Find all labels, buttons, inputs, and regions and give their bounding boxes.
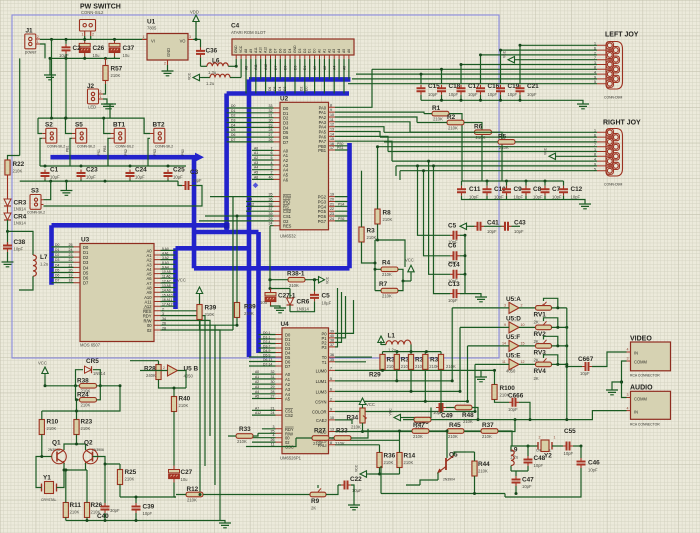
svg-text:D1-1: D1-1	[263, 335, 270, 339]
svg-text:D2-4: D2-4	[263, 340, 270, 344]
svg-text:PS6: PS6	[338, 217, 345, 221]
svg-text:2: 2	[271, 171, 273, 175]
svg-text:C12: C12	[571, 186, 583, 193]
power arrow VCC right	[319, 277, 325, 283]
svg-text:VCC: VCC	[389, 408, 393, 416]
svg-text:C40: C40	[97, 513, 109, 520]
svg-text:BT2: BT2	[153, 122, 166, 129]
bus horizontal y225	[52, 223, 227, 228]
svg-text:D6: D6	[278, 49, 282, 53]
svg-text:210K: 210K	[463, 419, 473, 424]
bus horizontal y232	[194, 230, 259, 235]
bus horizontal y79.4 rom	[249, 77, 350, 82]
svg-text:C46: C46	[588, 460, 600, 467]
svg-text:D0: D0	[313, 49, 317, 53]
svg-text:A3: A3	[254, 161, 258, 165]
svg-text:210K: 210K	[70, 510, 80, 515]
U2 left address pins	[274, 150, 281, 179]
svg-text:R44: R44	[478, 461, 490, 468]
svg-text:D3: D3	[231, 119, 235, 123]
svg-text:210K: 210K	[382, 272, 392, 277]
wire audio in	[515, 411, 627, 420]
svg-text:CR6: CR6	[297, 299, 310, 306]
wire trunk	[566, 308, 568, 420]
svg-text:U5:A: U5:A	[506, 296, 521, 303]
svg-text:10pF: 10pF	[522, 484, 532, 489]
svg-text:R4: R4	[382, 260, 391, 267]
U4 right T0 T1	[329, 357, 336, 362]
capacitor C17	[460, 65, 462, 84]
svg-text:1N914: 1N914	[14, 207, 27, 212]
svg-text:PS2: PS2	[124, 149, 128, 156]
svg-text:10µF: 10µF	[322, 301, 332, 306]
svg-text:U2: U2	[280, 96, 289, 103]
capacitor C18	[441, 69, 443, 84]
svg-text:A2: A2	[254, 156, 258, 160]
svg-text:C9: C9	[514, 186, 523, 193]
svg-text:38: 38	[269, 202, 273, 206]
svg-text:R39: R39	[205, 305, 217, 312]
bus main horizontal y157	[51, 155, 197, 160]
wire between R10 R23	[42, 386, 120, 411]
svg-text:10u: 10u	[260, 300, 268, 305]
svg-text:A11: A11	[254, 64, 258, 70]
svg-text:210K: 210K	[237, 439, 247, 444]
svg-text:210K: 210K	[47, 426, 57, 431]
rom pin net labels	[244, 64, 346, 70]
wire lower rail y58.4	[50, 57, 120, 59]
svg-text:D7: D7	[283, 140, 289, 145]
svg-text:33: 33	[269, 104, 273, 108]
svg-text:R48: R48	[462, 412, 474, 419]
wire to L7	[8, 231, 34, 255]
rom pin wires to power	[235, 59, 237, 66]
wire bottom right rail	[381, 494, 505, 498]
svg-text:C39: C39	[143, 504, 155, 511]
svg-text:C6: C6	[448, 243, 457, 250]
svg-text:36: 36	[330, 353, 334, 357]
svg-text:3: 3	[271, 166, 273, 170]
svg-text:10µF: 10µF	[50, 175, 60, 180]
svg-text:U4: U4	[281, 321, 290, 328]
capacitor C3	[178, 181, 182, 185]
svg-text:10pF: 10pF	[143, 511, 153, 516]
resistor R30	[438, 354, 443, 369]
svg-text:210K: 210K	[384, 460, 394, 465]
svg-text:CR4: CR4	[14, 214, 27, 221]
svg-text:D4: D4	[278, 87, 282, 91]
svg-text:4: 4	[627, 348, 629, 352]
svg-text:34: 34	[269, 222, 273, 226]
svg-text:11: 11	[271, 443, 275, 447]
svg-text:32: 32	[271, 370, 275, 374]
svg-text:210K: 210K	[81, 426, 91, 431]
svg-text:RV3: RV3	[534, 350, 547, 357]
svg-text:R23: R23	[81, 419, 93, 426]
svg-text:3: 3	[273, 425, 275, 429]
svg-text:COLOR: COLOR	[312, 410, 327, 415]
svg-text:8: 8	[330, 441, 332, 445]
capacitor C2	[62, 44, 71, 54]
svg-text:A5: A5	[285, 397, 291, 402]
svg-text:23: 23	[330, 212, 334, 216]
svg-text:C14: C14	[448, 261, 460, 268]
svg-text:R9: R9	[311, 498, 320, 505]
svg-text:210K: 210K	[205, 312, 215, 317]
svg-text:AUDIO: AUDIO	[630, 385, 653, 392]
svg-text:10pF: 10pF	[468, 92, 478, 97]
svg-text:GND: GND	[166, 48, 171, 57]
svg-text:D6: D6	[268, 87, 272, 91]
svg-text:10pF: 10pF	[448, 298, 458, 303]
svg-text:3: 3	[627, 393, 629, 397]
svg-text:28: 28	[271, 390, 275, 394]
svg-text:210K: 210K	[289, 283, 299, 288]
capacitor C37	[109, 39, 120, 56]
svg-text:LED: LED	[88, 105, 96, 110]
svg-text:35: 35	[269, 193, 273, 197]
svg-text:210K: 210K	[478, 469, 488, 474]
svg-text:LUM3: LUM3	[316, 389, 328, 394]
U2 PB0 PB1 to bus	[335, 146, 348, 150]
svg-text:210K: 210K	[335, 441, 345, 446]
svg-text:15: 15	[521, 342, 525, 346]
capacitor C8	[522, 186, 531, 196]
svg-text:R37: R37	[482, 422, 494, 429]
svg-text:S5: S5	[75, 122, 83, 129]
svg-text:210K: 210K	[446, 364, 456, 369]
U3 control pins	[154, 311, 161, 330]
svg-text:R100: R100	[500, 385, 516, 392]
svg-text:9: 9	[504, 323, 506, 327]
svg-text:210K: 210K	[244, 311, 254, 316]
rom slot pin stubs	[236, 55, 349, 59]
svg-text:R8: R8	[383, 210, 392, 217]
svg-text:10µF: 10µF	[59, 53, 69, 58]
svg-text:1: 1	[100, 95, 102, 99]
svg-text:2: 2	[521, 304, 523, 308]
svg-text:C1: C1	[50, 167, 59, 174]
svg-text:210K: 210K	[499, 145, 509, 150]
svg-text:R45: R45	[449, 422, 461, 429]
diode CR4	[4, 213, 11, 220]
capacitor C48	[524, 456, 533, 466]
svg-text:R47: R47	[413, 422, 425, 429]
resistor R100	[492, 385, 497, 400]
svg-text:210K: 210K	[313, 441, 323, 446]
wire J2 pin1 to ground	[103, 99, 107, 104]
capacitor C666	[509, 398, 519, 407]
svg-text:R7: R7	[379, 281, 388, 288]
capacitor C10	[483, 186, 492, 196]
svg-text:RCA CONNECTOR: RCA CONNECTOR	[630, 423, 660, 427]
svg-text:9 A4: 9 A4	[162, 266, 169, 270]
svg-text:BT1: BT1	[113, 122, 126, 129]
capacitor C16	[480, 55, 482, 84]
resistor R8	[375, 209, 380, 224]
svg-text:D7: D7	[55, 279, 59, 283]
svg-text:10pF: 10pF	[487, 229, 497, 234]
wire S5 stub	[66, 118, 73, 133]
svg-text:D7-14: D7-14	[263, 362, 272, 366]
svg-text:29: 29	[271, 385, 275, 389]
pot RV2	[536, 325, 552, 330]
svg-text:11: 11	[502, 360, 506, 364]
svg-text:PB3: PB3	[103, 145, 107, 152]
svg-text:10pF: 10pF	[514, 229, 524, 234]
svg-text:A0: A0	[318, 49, 322, 53]
bus horizontal y93.5 rom	[227, 91, 349, 96]
svg-text:D0: D0	[55, 243, 59, 247]
inductor L4	[193, 74, 202, 80]
svg-text:C21: C21	[527, 83, 539, 90]
capacitor C38	[3, 242, 12, 252]
svg-text:14: 14	[330, 132, 334, 136]
svg-text:20: 20	[69, 269, 73, 273]
svg-text:210K: 210K	[429, 364, 439, 369]
svg-text:210K: 210K	[125, 477, 135, 482]
svg-text:RV4: RV4	[534, 368, 547, 375]
svg-text:2: 2	[330, 397, 332, 401]
svg-text:COMM: COMM	[634, 397, 648, 402]
svg-text:21: 21	[330, 202, 334, 206]
svg-text:Q1: Q1	[52, 440, 61, 447]
bus junction blob	[224, 223, 230, 229]
svg-text:S2: S2	[45, 122, 53, 129]
svg-text:D2: D2	[231, 114, 235, 118]
svg-text:30pF: 30pF	[110, 508, 120, 513]
svg-text:5 A0: 5 A0	[162, 247, 169, 251]
svg-text:Y2: Y2	[544, 453, 552, 460]
svg-text:A0: A0	[255, 370, 259, 374]
capacitor row1 C15	[420, 74, 422, 84]
svg-text:R3: R3	[367, 228, 376, 235]
U2 left data pins	[274, 108, 281, 142]
ground under J1	[49, 58, 51, 75]
svg-text:1N914: 1N914	[14, 221, 27, 226]
svg-text:29: 29	[269, 123, 273, 127]
svg-text:10pF: 10pF	[192, 178, 202, 183]
svg-text:R34: R34	[347, 415, 359, 422]
svg-text:210K: 210K	[382, 293, 392, 298]
svg-text:15: 15	[330, 137, 334, 141]
svg-text:L1: L1	[388, 333, 396, 340]
svg-text:R38-1: R38-1	[287, 271, 305, 278]
svg-text:10µF: 10µF	[86, 175, 96, 180]
svg-text:39: 39	[269, 212, 273, 216]
svg-text:10pF: 10pF	[564, 451, 574, 456]
power arrow VCC R4	[408, 265, 414, 274]
svg-text:A12: A12	[255, 411, 261, 415]
svg-text:30: 30	[271, 380, 275, 384]
svg-text:12: 12	[521, 360, 525, 364]
svg-text:C3: C3	[190, 169, 199, 176]
svg-text:L7: L7	[40, 254, 48, 261]
svg-text:C37: C37	[123, 45, 135, 52]
wires video pins right	[335, 370, 515, 444]
svg-text:2: 2	[163, 366, 165, 370]
svg-text:C11: C11	[469, 186, 481, 193]
svg-text:210K: 210K	[383, 217, 393, 222]
svg-text:PG7: PG7	[318, 219, 327, 224]
svg-text:13 A8: 13 A8	[162, 284, 171, 288]
svg-text:4 A1: 4 A1	[162, 252, 169, 256]
wire video out	[567, 366, 582, 368]
svg-text:210K: 210K	[111, 73, 121, 78]
svg-text:CONN-SIL2: CONN-SIL2	[155, 145, 173, 149]
svg-text:13: 13	[330, 128, 334, 132]
capacitor C46	[580, 446, 582, 458]
svg-text:2: 2	[37, 35, 39, 39]
svg-text:C2: C2	[73, 45, 82, 52]
U3 address pins	[154, 250, 161, 306]
svg-text:R29: R29	[369, 372, 381, 379]
svg-text:PS1: PS1	[97, 149, 101, 156]
svg-text:39: 39	[330, 329, 334, 333]
svg-text:D5: D5	[284, 66, 288, 70]
svg-text:A1: A1	[255, 375, 259, 379]
svg-text:210K: 210K	[351, 425, 361, 430]
svg-text:9: 9	[330, 108, 332, 112]
svg-text:D3: D3	[298, 49, 302, 53]
svg-text:2N3904: 2N3904	[443, 478, 455, 482]
svg-text:P3: P3	[321, 345, 327, 350]
svg-text:7: 7	[271, 146, 273, 150]
svg-text:A2: A2	[323, 66, 327, 70]
ground near R100	[480, 370, 482, 377]
svg-text:D1: D1	[55, 248, 59, 252]
svg-text:7805: 7805	[147, 26, 157, 31]
buffer U5:B	[168, 365, 178, 376]
svg-text:C38: C38	[14, 239, 26, 246]
resistor R31	[394, 354, 399, 369]
svg-text:14 A9: 14 A9	[162, 289, 171, 293]
U2 right PG pins	[329, 197, 336, 221]
bus vertical x249 to U4	[247, 79, 252, 357]
svg-text:PS0: PS0	[181, 149, 185, 156]
svg-text:D4: D4	[288, 49, 292, 53]
svg-text:37: 37	[330, 343, 334, 347]
svg-text:16 A11: 16 A11	[162, 298, 172, 302]
svg-text:38: 38	[330, 338, 334, 342]
svg-text:C4: C4	[231, 23, 240, 30]
svg-text:VI: VI	[151, 39, 155, 44]
svg-text:D1: D1	[308, 49, 312, 53]
wire cap row2 ground rail	[462, 196, 586, 204]
svg-text:C49: C49	[441, 413, 453, 420]
bus vertical x51.5 U3 data	[49, 225, 54, 284]
svg-text:CRYSTAL: CRYSTAL	[41, 498, 56, 502]
svg-text:GND: GND	[234, 45, 238, 53]
capacitor C36	[200, 39, 202, 47]
svg-text:23: 23	[69, 253, 73, 257]
svg-text:R33: R33	[239, 426, 251, 433]
svg-text:26: 26	[271, 438, 275, 442]
bus vertical x194	[192, 157, 197, 268]
svg-text:C55: C55	[564, 428, 576, 435]
power flag VDD	[195, 22, 197, 39]
capacitor C5b	[314, 280, 316, 292]
svg-text:PB1: PB1	[66, 145, 70, 152]
capacitor C21	[519, 45, 521, 84]
svg-text:1: 1	[82, 33, 84, 37]
svg-text:VO: VO	[180, 39, 186, 44]
svg-text:COMM: COMM	[634, 360, 648, 365]
svg-text:A1: A1	[322, 49, 326, 53]
svg-text:PB1: PB1	[318, 148, 326, 153]
bus horizontal y248 U3 addr	[176, 246, 250, 251]
svg-text:21: 21	[271, 406, 275, 410]
svg-text:R25: R25	[125, 469, 137, 476]
U4 control pins	[276, 429, 283, 447]
wire S3 pin to rail	[44, 181, 51, 200]
svg-text:D7: D7	[231, 138, 235, 142]
wire bottom ground rail	[66, 521, 225, 524]
svg-text:VCC: VCC	[38, 361, 47, 366]
svg-text:R10: R10	[47, 419, 59, 426]
svg-text:1.2u: 1.2u	[206, 81, 215, 86]
crystal Y2	[512, 445, 538, 447]
svg-text:1.2u: 1.2u	[40, 262, 49, 267]
svg-text:10pF: 10pF	[534, 463, 544, 468]
U4 left data pins	[276, 335, 283, 367]
svg-text:CONN-D9M: CONN-D9M	[604, 96, 622, 100]
svg-text:10pF: 10pF	[14, 247, 24, 252]
junction dots power rails	[50, 38, 53, 41]
svg-text:C27: C27	[181, 469, 193, 476]
svg-text:8: 8	[330, 103, 332, 107]
rom pin wires to bus y93.5	[246, 59, 344, 94]
svg-text:VCC: VCC	[366, 402, 375, 407]
svg-text:6: 6	[330, 387, 332, 391]
svg-text:R27: R27	[314, 428, 326, 435]
svg-text:3: 3	[504, 304, 506, 308]
ground on cap rail	[65, 181, 67, 190]
svg-text:2K: 2K	[311, 506, 316, 511]
svg-text:CR5: CR5	[86, 358, 99, 365]
svg-text:10µF: 10µF	[135, 175, 145, 180]
svg-text:A10: A10	[259, 47, 263, 53]
svg-text:A9: A9	[249, 49, 253, 53]
svg-text:D3: D3	[55, 258, 59, 262]
svg-text:8 A3: 8 A3	[162, 261, 169, 265]
svg-text:A8: A8	[244, 49, 248, 53]
svg-text:CONN-SIL2: CONN-SIL2	[116, 145, 134, 149]
svg-text:C13: C13	[448, 281, 460, 288]
wire PA4-PA7 to joy rows	[335, 127, 392, 161]
svg-text:RES: RES	[283, 224, 292, 229]
ground C13	[475, 297, 487, 302]
svg-text:RV2: RV2	[534, 331, 547, 338]
capacitor C667	[582, 362, 592, 371]
svg-text:240K: 240K	[146, 373, 156, 378]
capacitor C5 mid	[418, 166, 451, 235]
svg-text:D5: D5	[55, 269, 59, 273]
diode CR6	[287, 298, 294, 305]
resistor R57	[103, 66, 108, 81]
svg-text:A4: A4	[254, 166, 258, 170]
svg-text:36: 36	[269, 198, 273, 202]
svg-text:C26: C26	[93, 45, 105, 52]
svg-text:power: power	[25, 50, 37, 55]
svg-text:10: 10	[330, 416, 334, 420]
svg-text:3: 3	[627, 357, 629, 361]
svg-text:D4: D4	[231, 123, 235, 127]
svg-text:R57: R57	[111, 66, 123, 73]
svg-text:4: 4	[627, 406, 629, 410]
svg-text:1N914: 1N914	[93, 371, 106, 376]
svg-text:10pF: 10pF	[428, 92, 438, 97]
